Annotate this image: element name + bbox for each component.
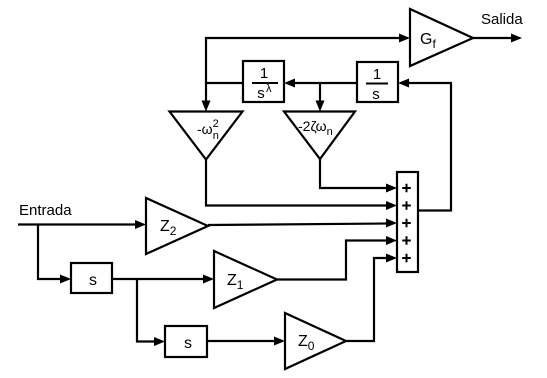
wire Z1 output to summer [277, 241, 388, 280]
wire arrow into s-block S2 [154, 337, 165, 346]
wire arrow into Z0 [274, 337, 285, 346]
block 1/s^lambda [243, 61, 284, 102]
wire S1 output to Z1 [112, 278, 205, 280]
wire arrow into Z2 [135, 220, 146, 229]
svg-text:Entrada: Entrada [19, 202, 72, 219]
amplifier Z2 [146, 198, 208, 254]
wire Z0 output to summer [346, 258, 388, 341]
svg-text:Salida: Salida [481, 11, 523, 28]
wire arrow into G_f [399, 34, 410, 43]
svg-text:s: s [257, 85, 265, 102]
amplifier Z1 [214, 251, 277, 308]
wire arrow into 1/s (leftward) [398, 79, 409, 88]
wire arrow into summer input 2 [386, 201, 397, 210]
svg-text:λ: λ [266, 83, 272, 95]
svg-text:s: s [89, 272, 97, 289]
wire S2 output to Z0 [207, 340, 276, 342]
wire -2zeta-omega_n output to summer [320, 159, 388, 188]
wire arrow into s-block S1 [60, 275, 71, 284]
wire arrow into summer input 4 [386, 236, 397, 245]
wire summer output feedback to 1/s [407, 83, 451, 211]
wire arrow into summer input 3 [386, 219, 397, 228]
amplifier -2zeta-omega_n (down) [284, 112, 355, 160]
amplifier -omega_n^2 (down) [170, 112, 243, 160]
node branch junction after S1 [137, 279, 156, 342]
summer U-sum block [397, 172, 418, 272]
block S2 (s) [165, 326, 207, 357]
block 1/s [357, 62, 398, 103]
block S1 (s) [71, 263, 112, 293]
wire arrow into -omega_n^2 top (downward) [202, 101, 211, 112]
wire Entrada input line [18, 223, 137, 225]
node input branch junction [38, 225, 62, 280]
amplifier G_f [410, 9, 473, 66]
wire 1/s output to 1/s^lambda [293, 82, 357, 84]
wire G_f output (Salida) [473, 37, 513, 39]
wire output arrowhead [511, 34, 522, 43]
svg-text:s: s [184, 335, 192, 352]
wire arrow into summer input 5 [386, 254, 397, 263]
wire Z2 output to summer [208, 224, 388, 226]
svg-text:s: s [372, 86, 380, 103]
wire arrow into Z1 [203, 275, 214, 284]
wire arrow into summer input 1 [386, 184, 397, 193]
wire junction up to G_f input [206, 38, 401, 83]
wire -omega_n^2 output to summer [206, 160, 388, 206]
wire junction down to -omega_n^2 [205, 83, 207, 103]
amplifier Z0 [285, 313, 346, 369]
wire 1/s^lambda output to junction [206, 82, 243, 84]
wire arrow into -2zeta-omega_n top (downward) [316, 101, 325, 112]
wire arrow into 1/s^lambda (leftward) [284, 79, 295, 88]
node branch junction to -2zeta-omega_n [319, 83, 321, 103]
svg-text:1: 1 [260, 65, 268, 82]
svg-text:1: 1 [373, 66, 381, 83]
